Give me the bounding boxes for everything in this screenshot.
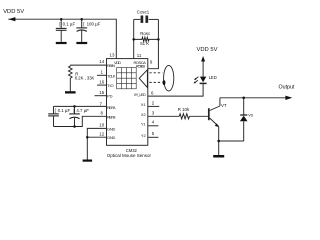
svg-text:9: 9 [150,60,153,65]
wire emitter to ground [218,141,220,155]
ground (under R) [65,91,76,93]
op IC U1 CM32 box [107,59,148,146]
label pin 13 [110,53,115,58]
svg-text:10: 10 [99,123,104,128]
diode VD [240,98,248,141]
svg-text:X1: X1 [141,102,147,107]
wire pin2 stub [148,105,160,107]
node junction C2 top [60,18,63,21]
wire pin4 stub [148,125,159,127]
svg-text:15: 15 [99,90,104,95]
wire VDD to LED [202,62,204,77]
label LED [209,75,217,80]
resistor Rosc 51K [134,37,159,41]
svg-text:VT: VT [221,103,227,108]
label 0.1uF mid [55,108,71,113]
node light arrow chevron [139,70,147,88]
node VDD arrow up [201,56,205,62]
node junction gnd pins [86,136,89,139]
capacitor 100uF (top, electrolytic) [76,19,87,42]
node junction caps bottom [73,125,76,128]
label Output [279,85,295,91]
wire pin15 stub [95,95,107,97]
node junction diode top [242,97,245,100]
svg-text:12: 12 [99,131,104,136]
svg-text:13: 13 [110,53,115,58]
svg-text:7: 7 [100,101,103,106]
ground (under top 0.1uF) [56,42,67,44]
label Optical Mouse Sensor [107,153,152,158]
sensor grid array [117,68,137,89]
IC pin names left column [107,63,116,140]
node VDD 5V label (top-left) [3,9,24,15]
svg-text:Y2: Y2 [141,133,147,138]
wire dashed light ray 2 [149,81,162,83]
label Rosc [140,31,151,36]
label VT [221,103,227,108]
wire osc right vertical to ROSCB pin9 [148,19,159,68]
wire dashed light ray 1 [149,72,162,74]
svg-text:Cosc1: Cosc1 [137,9,150,14]
svg-text:LED: LED [209,75,217,80]
IC pin names top row [114,60,146,69]
ground (IC gnd) [83,160,93,162]
svg-text:1: 1 [101,70,104,75]
svg-text:RBIN: RBIN [107,63,115,68]
svg-text:100 µF: 100 µF [87,21,101,26]
label 4.7uF [73,108,89,113]
label pin numbers left [99,59,104,136]
svg-text:[: [ [83,21,85,26]
svg-text:PD: PD [107,94,113,99]
svg-text:4.7 µF: 4.7 µF [76,108,89,113]
svg-text:GND: GND [107,126,116,131]
capacitor Cosc1 [134,16,159,23]
svg-text:14: 14 [99,59,104,64]
wire pin16 stub [97,84,107,86]
label 0.1uF top [59,21,75,26]
svg-text:51 K: 51 K [140,41,149,46]
svg-text:16: 16 [99,79,104,84]
label VD [248,114,253,118]
label pin 11 [137,53,142,58]
node junction osc right [157,38,160,41]
wire VDD rail top to pin 13 [8,19,116,58]
svg-text:2: 2 [152,100,155,105]
node VDD rail arrow [8,17,15,21]
capacitor 4.7uF (mid, electrolytic) [69,106,80,126]
node junction C3 top [80,18,83,21]
svg-text:8: 8 [101,110,104,115]
ground (emitter) [213,155,224,158]
svg-text:VDD: VDD [114,60,121,65]
resistor R 10k [148,114,208,119]
node LED light arrow 2 [194,80,198,83]
svg-text:5: 5 [152,131,155,136]
node lens blob [163,80,166,85]
svg-text:6.2K , 33K: 6.2K , 33K [75,76,95,81]
label R 10k [178,107,190,112]
diode LED D1 [200,77,207,84]
wire diode bottom to emitter [219,140,244,142]
svg-text:VDD 5V: VDD 5V [3,9,24,15]
svg-text:Rosc: Rosc [140,31,151,36]
wire pin1 stub [97,74,107,76]
node output arrow [285,96,292,100]
svg-text:11: 11 [137,53,142,58]
capacitor 0.1uF (mid, REFA) [48,106,106,126]
label CM32 [126,148,138,153]
svg-text:0.1 µF: 0.1 µF [58,108,71,113]
svg-text:3: 3 [152,110,155,115]
node VDD 5V label (right) [197,47,218,53]
node junction C mid top [73,105,76,108]
wire caps bottom to REFB pin8 [54,116,107,126]
wire LED cathode to XY_LED pin6 [148,83,203,96]
wire GND pin10 [87,128,106,159]
svg-text:0.1 µF: 0.1 µF [63,21,76,26]
node junction emitter/gnd [217,140,220,143]
svg-text:VDD 5V: VDD 5V [197,47,218,53]
label 51K [140,41,149,46]
svg-text:TIO: TIO [107,83,114,88]
resistor R 6.2K,33K [69,65,107,91]
svg-text:[: [ [73,108,75,113]
wire collector to output [220,97,286,99]
node LED light arrow 1 [194,77,198,80]
svg-text:REFB: REFB [107,114,116,119]
svg-text:GND: GND [107,135,116,140]
wire pin11 ROSCA vertical [133,19,135,58]
svg-text:Output: Output [279,85,295,91]
transistor VT (NPN) [209,98,220,141]
svg-text:6: 6 [151,90,154,95]
svg-text:TCLK: TCLK [107,73,116,78]
svg-text:[: [ [55,108,57,113]
svg-text:ROSCB: ROSCB [136,64,146,69]
IC pin names right column [134,92,147,138]
svg-text:REFA: REFA [107,105,116,110]
label pin 9 [150,60,153,65]
capacitor 0.1uF (top) [56,19,67,42]
svg-text:XY_LED: XY_LED [134,92,146,97]
label R 6.2K,33K [75,71,95,80]
svg-text:Optical Mouse Sensor: Optical Mouse Sensor [107,153,152,158]
svg-text:4: 4 [152,120,155,125]
wire pin5 stub [148,136,159,138]
svg-text:X2: X2 [141,112,147,117]
svg-text:VD: VD [248,114,253,118]
wire GND pin12 [87,136,106,138]
node lens ellipse [164,65,174,91]
svg-text:Y1: Y1 [141,121,147,126]
svg-text:R 10k: R 10k [178,107,190,112]
label Cosc1 [137,9,150,14]
label pin numbers right [151,90,155,136]
label 100uF [83,21,100,26]
ground (under 100uF) [76,42,87,44]
node junction osc left [132,38,135,41]
